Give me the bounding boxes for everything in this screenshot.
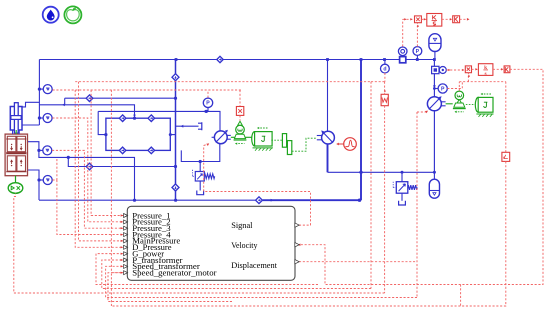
svg-text:P: P	[416, 49, 420, 55]
svg-text:d: d	[383, 67, 386, 73]
svg-text:P: P	[441, 86, 445, 92]
svg-text:Signal: Signal	[231, 221, 253, 230]
svg-text:Velocity: Velocity	[231, 241, 258, 250]
svg-text:Displacement: Displacement	[231, 261, 277, 270]
svg-text:Speed_generator_motor: Speed_generator_motor	[132, 269, 216, 278]
svg-text:P: P	[206, 101, 210, 107]
svg-text:s: s	[485, 71, 487, 77]
